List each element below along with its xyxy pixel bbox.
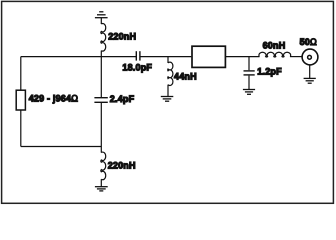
wire (main horizontal, left section) <box>21 56 136 58</box>
wire (node B down to inductor L3) <box>167 57 169 63</box>
capacitor C3 1.2pF <box>244 71 255 75</box>
wire (top inductor to node A) <box>100 51 102 57</box>
wire (inductor L4 to port P1) <box>290 56 302 58</box>
ground (under port P1) <box>304 78 316 83</box>
ground (under 44nH) <box>161 97 174 102</box>
impedance Z1 429 - j964 ohm (box) <box>16 90 25 110</box>
wire (inductor L3 to ground) <box>167 85 169 97</box>
svg-text:429 - j964Ω: 429 - j964Ω <box>29 93 79 103</box>
svg-text:18.0pF: 18.0pF <box>122 63 152 73</box>
wire (left vertical, lower) <box>20 110 22 147</box>
svg-text:44nH: 44nH <box>174 72 197 82</box>
svg-text:60nH: 60nH <box>263 41 286 51</box>
wire (bottom horizontal) <box>21 146 102 148</box>
svg-text:220nH: 220nH <box>108 31 136 41</box>
inductor L3 44nH <box>168 62 173 85</box>
inductor L1 220nH (top) <box>101 24 106 52</box>
ground (top, flipped) <box>95 12 108 18</box>
wire (inductor L2 to ground) <box>100 179 102 186</box>
wire (main horizontal, C2 to box) <box>140 56 191 58</box>
capacitor C1 2.4pF <box>94 98 107 103</box>
wire (left vertical, upper) <box>20 57 22 90</box>
two-port network U1 (box) <box>192 46 225 67</box>
wire (node A down to capacitor C1) <box>100 57 102 97</box>
ground (under 1.2pF) <box>243 90 255 95</box>
wire (bottom wire to inductor L2) <box>100 147 102 153</box>
wire (top ground stem) <box>100 18 102 24</box>
ground (bottom) <box>95 187 108 191</box>
inductor L4 60nH (series) <box>259 52 291 57</box>
port P1 50 ohm (connector symbol) <box>302 49 318 65</box>
capacitor C2 18.0pF (series) <box>136 51 140 60</box>
svg-text:1.2pF: 1.2pF <box>257 66 282 76</box>
wire (node C down to capacitor C3) <box>248 57 250 71</box>
wire (port P1 to ground) <box>309 65 311 78</box>
svg-text:220nH: 220nH <box>108 160 136 170</box>
wire (capacitor C3 to ground) <box>248 76 250 90</box>
svg-text:50Ω: 50Ω <box>300 37 317 47</box>
svg-text:2.4pF: 2.4pF <box>110 94 135 104</box>
wire (box to node C) <box>226 56 260 58</box>
wire (capacitor C1 to bottom wire) <box>100 103 102 147</box>
inductor L2 220nH (bottom) <box>101 152 106 180</box>
